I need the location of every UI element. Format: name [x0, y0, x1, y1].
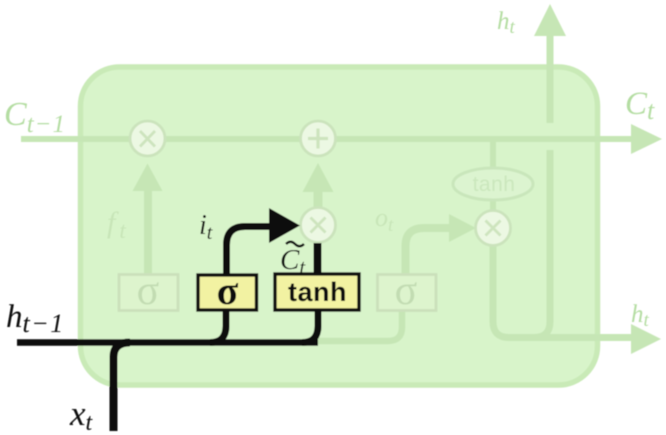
x_t input line — [114, 343, 131, 432]
tanh box — [275, 274, 359, 310]
tanh branch up — [302, 308, 318, 343]
LSTM cell body — [81, 67, 598, 385]
svg-text:xt: xt — [69, 394, 94, 435]
input product arrow to + — [314, 190, 323, 207]
faded sigma box (forget gate) — [119, 275, 178, 311]
svg-text:ht−1: ht−1 — [6, 299, 65, 338]
h_t top arrowhead — [534, 4, 566, 36]
tanh connector — [490, 142, 496, 212]
tanh ellipse — [453, 168, 533, 200]
input gate curve i with arrow — [227, 227, 273, 277]
C output arrowhead — [631, 124, 662, 154]
cell state line C — [21, 136, 631, 142]
svg-text:ht: ht — [631, 301, 650, 331]
svg-text:tanh: tanh — [473, 173, 516, 196]
pointwise x circle (input) — [301, 208, 336, 243]
h_t upward branch upper shaft — [547, 34, 554, 123]
sigma branch up — [210, 308, 226, 343]
svg-text:σ: σ — [137, 268, 160, 314]
svg-text:Ct: Ct — [625, 86, 655, 125]
svg-text:ht: ht — [497, 8, 516, 38]
svg-text:Ct−1: Ct−1 — [4, 96, 66, 138]
black h_{t-1} input line — [17, 339, 318, 346]
output path down from x — [493, 244, 632, 338]
pointwise x circle (output) — [476, 211, 511, 246]
sigma box (input gate) — [198, 275, 257, 310]
h output arrowhead — [631, 324, 661, 354]
svg-text:σ: σ — [217, 268, 239, 313]
output gate curve o — [406, 228, 451, 276]
pointwise x circle (forget) — [130, 121, 165, 156]
faded sigma box (output gate) — [378, 275, 437, 311]
svg-text:σ: σ — [395, 268, 418, 314]
pointwise + circle — [301, 121, 336, 156]
svg-text:tanh: tanh — [288, 277, 347, 307]
faded h line continuation to o gate — [318, 310, 402, 341]
tanh top connector — [314, 243, 322, 276]
forget gate arrow f — [144, 189, 152, 276]
h_t upward branch lower shaft — [534, 150, 550, 338]
